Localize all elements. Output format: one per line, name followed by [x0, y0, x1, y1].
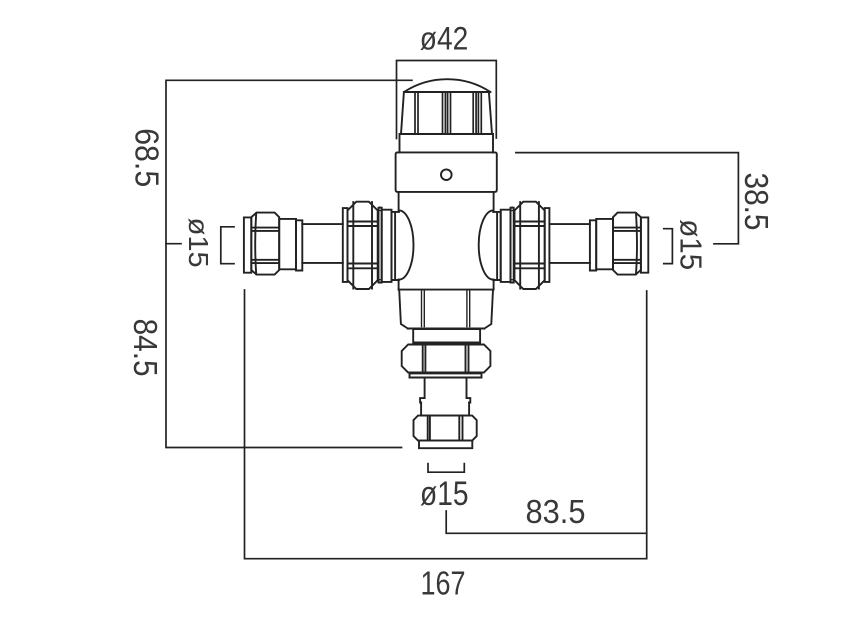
right arm union nut — [515, 202, 545, 289]
bottom compression nut — [414, 416, 477, 441]
bottom hex facet lines — [422, 290, 470, 327]
right arm body dome — [479, 210, 501, 280]
svg-text:ø15: ø15 — [673, 219, 708, 270]
right arm compression nut — [613, 213, 641, 275]
dimension line 38.5 right — [516, 153, 739, 244]
right arm flange ring — [501, 210, 511, 282]
svg-text:ø42: ø42 — [420, 21, 469, 57]
dimension line 167 — [245, 290, 647, 559]
bottom tube — [425, 378, 467, 399]
bottom shoulder — [420, 398, 470, 402]
right arm pre-nut ring — [545, 208, 550, 282]
tick arm centerline left — [166, 243, 181, 245]
left arm group — [244, 202, 414, 289]
left arm step ring — [296, 220, 302, 270]
valve sight circle — [441, 169, 452, 180]
svg-text:167: 167 — [421, 565, 466, 602]
left arm body dome — [392, 210, 414, 280]
right arm washer ring — [511, 208, 514, 283]
svg-text:ø15: ø15 — [420, 475, 469, 513]
svg-text:38.5: 38.5 — [738, 173, 775, 231]
right arm end cap — [641, 217, 648, 272]
dimension chain 68.5/84.5 left — [166, 80, 412, 447]
svg-text:84.5: 84.5 — [127, 319, 164, 377]
dimension bracket ø15 bottom — [428, 464, 464, 473]
left arm washer ring — [379, 208, 382, 283]
bottom hex section — [399, 290, 494, 329]
svg-text:83.5: 83.5 — [526, 493, 586, 530]
bottom hex nut — [402, 345, 491, 373]
left arm pipe — [302, 224, 343, 263]
left arm union nut — [348, 202, 378, 289]
svg-text:68.5: 68.5 — [128, 128, 165, 187]
valve head knurl outline — [401, 92, 492, 134]
valve body — [396, 152, 497, 192]
dimension line 83.5 bottom — [446, 511, 647, 533]
right arm group (mirror) — [479, 202, 649, 289]
dimension bracket ø15 left arm — [221, 227, 234, 264]
left arm end cap — [244, 217, 251, 272]
svg-text:ø15: ø15 — [183, 218, 214, 268]
dimension bracket ø15 right arm — [664, 229, 673, 264]
valve head collar — [400, 134, 494, 152]
dimension bracket ø42 — [397, 61, 497, 139]
left arm washer circles — [378, 207, 381, 210]
bottom ring C — [421, 403, 469, 416]
bottom end cap — [419, 441, 472, 449]
left arm pre-nut ring — [343, 208, 348, 282]
right arm step ring — [590, 220, 596, 270]
right arm pipe — [549, 224, 590, 263]
valve neck — [399, 192, 494, 290]
valve head dome — [404, 79, 491, 92]
bottom ring A — [413, 329, 480, 342]
bottom washer B — [410, 373, 482, 377]
valve head knurl ridges — [415, 93, 481, 134]
left arm compression nut — [251, 213, 279, 275]
left arm flange ring — [382, 210, 392, 282]
right arm washer circles — [510, 207, 513, 210]
left arm coupling body — [279, 219, 296, 269]
right arm coupling body — [596, 219, 613, 269]
